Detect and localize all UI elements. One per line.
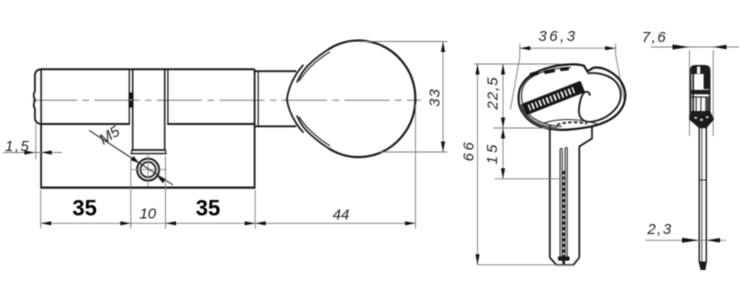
centerline horizontal [32,99,421,101]
neck bottom [255,125,297,127]
knob circle arc (right 3/4) [328,41,415,158]
brand band dark [522,81,585,116]
collar specks [695,117,697,119]
screw centerline vertical [147,155,149,187]
key bow outer outline [519,64,626,129]
side head left line [692,74,694,112]
chain dim extension lines [40,190,42,229]
dim 15 arrows [501,128,505,139]
side head middle band [691,90,709,94]
svg-text:22,5: 22,5 [484,76,501,110]
top cap white slit [697,67,700,74]
dim 36,3 line [520,47,616,49]
body right edge [254,69,256,187]
key bow inner offset line [522,68,571,127]
arrow at 415.5 right [405,221,416,225]
blade shoulder right edge [579,126,592,258]
dim 66 line [477,64,479,265]
cam bottom [132,149,166,151]
plug face (left end profile) [34,69,41,124]
blade left edge [549,126,551,258]
screw centerline horizontal [131,169,167,171]
dim 33 arrows [441,42,445,53]
chain dim line [41,222,416,224]
side blade tip [699,262,706,270]
neck top [255,70,297,72]
screw circle inner [141,162,156,177]
bottom small marks [557,122,587,125]
dim 36,3 oblique ext left [510,44,519,110]
screw circle outer [137,159,159,181]
svg-text:33: 33 [427,88,444,107]
key bow lower-left rim shading [521,105,558,129]
arrow at 165.5 left [166,221,177,225]
fin left edge [40,124,42,188]
key bow G-hook [579,73,621,122]
arrow at 130.8 right [120,221,131,225]
svg-text:44: 44 [333,207,350,224]
blade groove right [565,147,567,261]
side collar [690,112,714,128]
knob flare outer top [297,49,329,82]
dim 33 ext bottom [379,151,448,153]
dim 33 line [442,42,444,153]
barrel top edge [41,68,255,70]
ring left half [128,69,130,124]
svg-text:35: 35 [196,196,220,221]
dim 1,5 line [3,152,62,154]
cam right edge [164,69,166,150]
svg-text:66: 66 [460,140,477,162]
top dashes [529,67,569,77]
arrow at 40.7 left [41,221,52,225]
knob flare inner top [299,52,330,81]
dim 7,6 ext lines [689,50,691,136]
blade groove left [560,148,562,261]
svg-text:7,6: 7,6 [642,29,667,46]
dim 33 ext top [358,41,448,43]
svg-text:36,3: 36,3 [538,28,577,45]
svg-text:10: 10 [139,206,156,223]
bottom arc detail [543,120,599,125]
M5 leader line [89,130,173,185]
svg-text:2,3: 2,3 [646,221,672,238]
clip mark on left ring [129,93,134,100]
svg-text:35: 35 [72,196,96,221]
dim 1,5 arrow left-pointing [41,150,52,154]
fin bottom edge [40,187,255,189]
barrel left edge [40,69,42,124]
M5 leader arrow upper [131,156,140,163]
side head top cap dark [691,66,709,74]
dimple chain [558,171,570,264]
neck collar ring [257,71,259,126]
barrel bottom edge right segment [167,123,254,125]
dim 22,5 line [502,64,504,179]
dim 7,6 line [651,46,739,48]
knob flare outer bottom [297,116,329,149]
knob heart spade [287,65,304,133]
dim 2,3 line [645,239,726,241]
side head outline [691,66,710,112]
dim 1,5 ext line [35,124,37,160]
svg-text:15: 15 [484,142,501,165]
barrel bottom edge left segment [41,123,130,125]
arrows at 255.2 both [245,221,256,225]
M5 leader arrow lower [157,176,166,183]
side head lines lower [691,96,709,98]
side blade step tick [699,179,706,181]
dim 36,3 arrows [520,46,531,50]
dim 1,5 arrow right-pointing [24,150,35,154]
cam left edge [132,69,134,150]
blade tip [550,258,580,265]
dim 36,3 oblique ext right [616,44,625,101]
side head right upper block [704,74,709,90]
knob flare inner bottom [299,117,330,146]
ring right half [167,69,169,124]
svg-text:1,5: 1,5 [5,138,30,155]
left dims of key: ext lines [474,63,562,65]
side blade [698,128,700,263]
